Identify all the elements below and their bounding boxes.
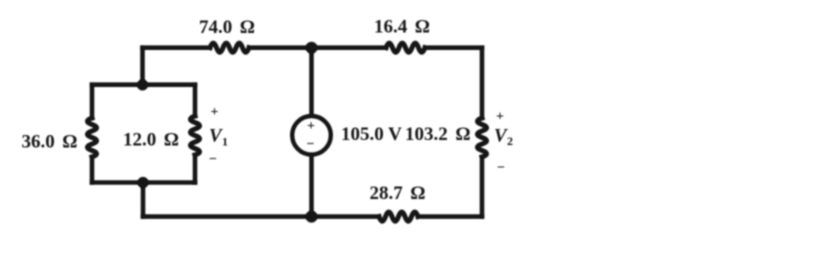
svg-text:V: V bbox=[209, 126, 223, 147]
svg-text:+: + bbox=[211, 105, 219, 120]
wire: inner box right upper bbox=[193, 85, 198, 116]
wire: middle branch upper bbox=[309, 48, 314, 114]
wire: inner box bottom bbox=[92, 180, 195, 185]
svg-text:+: + bbox=[496, 110, 504, 125]
svg-text:36.0 Ω: 36.0 Ω bbox=[21, 132, 77, 153]
node C: junction dot inner box top bbox=[137, 79, 148, 90]
svg-text:V: V bbox=[494, 126, 508, 147]
wire: inner box left upper bbox=[90, 85, 95, 118]
svg-text:2: 2 bbox=[507, 134, 513, 148]
resistor R2 16.4 ohm bbox=[386, 43, 425, 52]
svg-text:103.2 Ω: 103.2 Ω bbox=[405, 124, 471, 145]
node D: junction dot inner box bottom bbox=[137, 177, 148, 188]
wire: middle branch lower bbox=[309, 157, 314, 217]
resistor R3 103.2 ohm bbox=[477, 118, 486, 157]
resistor R4 28.7 ohm bbox=[379, 212, 418, 221]
node A: junction dot top middle bbox=[306, 42, 318, 54]
svg-text:74.0 Ω: 74.0 Ω bbox=[199, 17, 255, 38]
svg-text:−: − bbox=[209, 152, 217, 167]
voltage source V 105.0 volts bbox=[292, 116, 331, 155]
svg-text:16.4 Ω: 16.4 Ω bbox=[374, 17, 430, 38]
wire: inner box right lower bbox=[193, 155, 198, 183]
svg-text:28.7 Ω: 28.7 Ω bbox=[369, 183, 425, 204]
resistor R5 36.0 ohm bbox=[87, 118, 96, 157]
resistor R6 12.0 ohm bbox=[190, 116, 199, 155]
wire: inner box left lower bbox=[90, 157, 95, 183]
svg-text:−: − bbox=[497, 161, 505, 176]
svg-text:12.0 Ω: 12.0 Ω bbox=[123, 130, 179, 151]
svg-text:105.0 V: 105.0 V bbox=[341, 124, 402, 145]
wire: top main left segment bbox=[143, 45, 211, 50]
wire: top main middle segment bbox=[249, 45, 386, 50]
wire: bottom main right segment bbox=[418, 214, 482, 219]
resistor R1 74.0 ohm bbox=[210, 43, 249, 52]
wire: right vertical lower bbox=[480, 157, 485, 217]
wire: right vertical upper bbox=[480, 48, 485, 118]
wire: top main right segment bbox=[425, 45, 482, 50]
wire: left drop from inner box to bottom wire bbox=[141, 183, 146, 217]
svg-text:+: + bbox=[307, 119, 315, 134]
wire: bottom main left segment bbox=[143, 214, 379, 219]
wire: left riser from top node down to inner box bbox=[140, 48, 145, 85]
svg-text:1: 1 bbox=[222, 135, 228, 149]
svg-text:−: − bbox=[307, 137, 315, 152]
node B: junction dot bottom middle bbox=[306, 211, 318, 223]
wire: inner box top bbox=[92, 82, 195, 87]
